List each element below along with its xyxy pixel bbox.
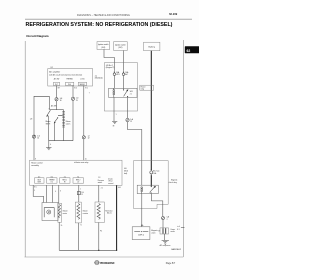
left frame rail xyxy=(24,41,26,257)
svg-text:Comp-: Comp- xyxy=(170,229,175,231)
svg-text:REFRIGERATION SYSTEM: NO REFRI: REFRIGERATION SYSTEM: NO REFRIGERATION (… xyxy=(26,22,173,28)
pressure switch heavy output xyxy=(116,185,118,250)
blower motor label xyxy=(63,211,68,215)
MG clutch relay box xyxy=(137,185,158,193)
fuse A/C 10A xyxy=(122,63,129,90)
svg-text:(No.1): (No.1) xyxy=(107,213,112,215)
svg-text:3: 3 xyxy=(60,191,61,193)
svg-text:IE: IE xyxy=(113,125,115,127)
cluster bus h1 xyxy=(49,109,63,111)
svg-text:Thermistor: Thermistor xyxy=(105,209,113,212)
svg-text:Blower: Blower xyxy=(63,211,68,213)
svg-text:LOCK: LOCK xyxy=(80,78,85,80)
svg-text:5: 5 xyxy=(34,190,35,192)
connector circle 5-B xyxy=(162,217,170,221)
wire IG1 to J/B fuse xyxy=(104,49,114,62)
amp wire pin2 to cluster rail xyxy=(72,100,74,141)
svg-text:ressor: ressor xyxy=(170,231,175,233)
svg-text:7 4: 7 4 xyxy=(77,176,79,178)
svg-text:1-E: 1-E xyxy=(30,119,32,121)
node dot xyxy=(49,108,50,109)
A/C control assembly box xyxy=(30,160,122,185)
coil feed wire inside box xyxy=(141,161,143,186)
svg-text:2-E: 2-E xyxy=(81,192,83,194)
svg-text:62-239: 62-239 xyxy=(169,12,178,16)
svg-text:W-R: W-R xyxy=(130,91,134,93)
svg-text:2 1: 2 1 xyxy=(101,187,103,189)
right frame rail xyxy=(182,40,184,257)
svg-text:16: 16 xyxy=(60,100,62,102)
svg-text:(CMP 4): (CMP 4) xyxy=(138,235,144,237)
heater relay box xyxy=(109,88,137,97)
wire IG2 to J/B xyxy=(123,51,125,63)
svg-text:Circuit Diagram: Circuit Diagram xyxy=(26,34,49,38)
blower motor M xyxy=(47,210,51,214)
svg-text:B 2: B 2 xyxy=(51,67,54,69)
pressure switch section text xyxy=(98,177,114,185)
svg-text:Ignition switch: Ignition switch xyxy=(115,44,126,47)
amp wire pin1 down xyxy=(56,86,58,98)
pin1 wire continues xyxy=(56,101,58,110)
svg-text:HTR: HTR xyxy=(116,74,120,76)
resistor R3 label xyxy=(105,209,113,214)
svg-text:A/C SW: A/C SW xyxy=(54,77,60,80)
relay contact output to clutch xyxy=(152,194,163,217)
compressor ground xyxy=(160,240,171,247)
A/C amplifier box U1 xyxy=(48,69,93,87)
wire pressure section to R3 xyxy=(98,185,100,202)
S1 output wire xyxy=(48,116,50,141)
svg-text:2 1: 2 1 xyxy=(130,93,132,95)
left branch wire to control box xyxy=(34,96,49,160)
svg-text:(Dual): (Dual) xyxy=(108,178,113,180)
svg-text:PRODEMAND: PRODEMAND xyxy=(100,262,115,265)
wire R2 to ground rail xyxy=(77,223,79,250)
svg-text:DIAGNOSIS – HEATER & AIR CONDI: DIAGNOSIS – HEATER & AIR CONDITIONING xyxy=(77,14,130,17)
svg-text:to 4: to 4 xyxy=(177,225,180,228)
svg-text:B 1: B 1 xyxy=(85,88,87,90)
control box pin box 4 xyxy=(73,176,84,183)
wire R3 to ground rail xyxy=(98,223,100,251)
svg-text:A/C: A/C xyxy=(125,73,129,76)
svg-text:4-B: 4-B xyxy=(124,168,126,170)
svg-text:A/C amplifier: A/C amplifier xyxy=(49,70,60,73)
blower switch label xyxy=(66,121,71,125)
label 4-B shielded left of box xyxy=(124,168,129,175)
svg-text:Pressure: Pressure xyxy=(98,180,104,182)
svg-text:(Shiel: (Shiel xyxy=(124,171,129,173)
ground rail bottom xyxy=(59,249,116,251)
wire relay coil to ground xyxy=(113,97,115,121)
cluster bottom rail xyxy=(49,140,73,142)
svg-text:12: 12 xyxy=(88,138,90,140)
wire clutch to ground xyxy=(163,234,165,240)
magnetic clutch relay box outline xyxy=(134,161,169,209)
svg-text:Magnetic: Magnetic xyxy=(151,229,158,232)
MG clutch relay label xyxy=(169,179,178,185)
wire control box to blower unit xyxy=(33,185,43,202)
svg-text:O 2: O 2 xyxy=(50,182,53,184)
amplifier shielded label xyxy=(95,75,103,79)
wire control to resistor R1 xyxy=(58,185,60,203)
svg-text:Heater: Heater xyxy=(141,85,146,88)
connector circle 5-A xyxy=(126,118,134,123)
connector circle 1-G xyxy=(32,135,40,140)
svg-text:7: 7 xyxy=(89,92,90,94)
chapter tab 62 xyxy=(185,46,200,53)
ignition switch box IG1 xyxy=(97,42,110,50)
ground J/B xyxy=(112,121,117,127)
svg-text:Battery: Battery xyxy=(149,45,155,48)
connector square on R2 wire xyxy=(77,189,83,196)
svg-text:RES 1: RES 1 xyxy=(63,179,68,181)
svg-text:6 5: 6 5 xyxy=(38,176,40,178)
amplifier pin group 3 xyxy=(78,78,86,86)
amp wire pin2 down xyxy=(72,86,74,98)
svg-text:Blower: Blower xyxy=(83,211,88,213)
heater relay coil xyxy=(113,88,115,97)
amplifier pin group 1 xyxy=(54,77,60,86)
junction dot on rail xyxy=(98,250,99,251)
wire R1 to ground rail xyxy=(58,222,60,250)
svg-text:1: 1 xyxy=(80,189,81,191)
svg-text:7 1: 7 1 xyxy=(80,225,82,227)
ignition switch box IG2 xyxy=(114,42,128,51)
svg-text:1: 1 xyxy=(116,114,117,116)
svg-text:19: 19 xyxy=(76,100,78,102)
connector circle 1-D xyxy=(71,97,79,102)
battery wire fuse to relay xyxy=(150,176,152,187)
connector circle 1-I xyxy=(82,135,90,139)
tick dash label xyxy=(58,114,63,116)
speed contact ladder wire xyxy=(62,110,65,141)
magnetic clutch MC1 xyxy=(158,228,168,234)
resistor box R3 xyxy=(95,202,104,223)
resistor R2 label xyxy=(83,211,89,215)
junction dot rail right xyxy=(116,250,117,251)
compressor label right xyxy=(170,229,175,233)
A/C fuse on battery line xyxy=(150,169,160,175)
svg-text:B 4: B 4 xyxy=(74,88,76,90)
svg-text:A/C fuse: A/C fuse xyxy=(153,170,159,173)
cluster top wire xyxy=(48,96,50,108)
wire relay output down xyxy=(127,97,129,118)
svg-text:BA3Z0E02: BA3Z0E02 xyxy=(171,248,182,251)
J/B No.2 box xyxy=(104,63,137,111)
svg-text:(IG1): (IG1) xyxy=(101,47,105,49)
amp wire pin3 to control box xyxy=(83,139,85,160)
magnetic clutch label left xyxy=(151,229,158,234)
svg-text:4: 4 xyxy=(55,191,56,193)
svg-text:normal: normal xyxy=(108,183,114,185)
control box pin box 3 xyxy=(60,176,71,183)
footer logo xyxy=(95,260,99,264)
svg-text:F 4: F 4 xyxy=(100,231,102,233)
blower switch S2 xyxy=(46,117,59,125)
svg-text:RES 2: RES 2 xyxy=(76,179,81,181)
svg-text:(Shielded): (Shielded) xyxy=(95,78,103,80)
blower unit box xyxy=(42,203,58,221)
cluster ground xyxy=(46,148,51,150)
blower inner housing xyxy=(44,208,54,218)
svg-text:(Engine R): (Engine R) xyxy=(106,67,115,69)
svg-text:Blower: Blower xyxy=(66,121,71,123)
lock sensor box B1 xyxy=(132,227,150,240)
svg-text:B 1: B 1 xyxy=(177,229,179,231)
amplifier pin group 2 xyxy=(66,78,74,86)
svg-text:BLW: BLW xyxy=(38,179,42,181)
MG relay contact xyxy=(150,186,156,193)
fuse HTR 50A xyxy=(113,63,120,89)
svg-text:to Heater main relay: to Heater main relay xyxy=(74,161,89,164)
svg-text:4: 4 xyxy=(50,144,51,146)
svg-text:14: 14 xyxy=(37,138,39,140)
right rail tick label xyxy=(177,225,184,231)
bottom frame rule xyxy=(25,256,184,258)
wire control to blower pin3 xyxy=(52,185,54,202)
svg-text:Page 5/7: Page 5/7 xyxy=(166,262,176,265)
battery heavy wire xyxy=(150,51,152,170)
svg-text:(IG2): (IG2) xyxy=(118,47,122,49)
wire control to resistor R2 xyxy=(78,185,80,202)
battery box xyxy=(144,42,160,51)
svg-text:B 7: B 7 xyxy=(58,88,60,90)
svg-text:8 2: 8 2 xyxy=(51,176,53,178)
svg-text:1 8: 1 8 xyxy=(98,177,100,179)
connector circle 1-E xyxy=(55,98,63,103)
svg-text:assembly: assembly xyxy=(31,165,39,167)
wire connector to clutch xyxy=(162,220,164,229)
svg-text:clutch relay: clutch relay xyxy=(169,181,177,184)
svg-text:THERMO: THERMO xyxy=(66,78,73,80)
svg-text:relay: relay xyxy=(141,89,145,91)
heater relay label box outside xyxy=(140,85,154,90)
svg-text:(with A/C cut-off and compress: (with A/C cut-off and compressor lock de… xyxy=(49,74,82,77)
svg-text:11: 11 xyxy=(81,194,83,196)
control box pin box 1 xyxy=(35,176,45,183)
svg-text:5-B: 5-B xyxy=(167,217,169,219)
svg-text:Ignition switch: Ignition switch xyxy=(98,43,109,46)
svg-text:M: M xyxy=(48,212,50,214)
svg-text:ded): ded) xyxy=(124,173,128,175)
svg-text:3 1: 3 1 xyxy=(64,176,66,178)
svg-text:A/C SW: A/C SW xyxy=(51,105,57,108)
heater relay contact xyxy=(123,89,128,97)
svg-text:2: 2 xyxy=(167,219,168,221)
svg-text:SW HI: SW HI xyxy=(46,123,51,125)
wire coil to lock sensor amp xyxy=(141,194,143,227)
A/C switch S1 xyxy=(46,105,57,117)
amp wire pin3 down xyxy=(83,86,85,136)
MG relay coil xyxy=(141,187,143,194)
resistor box R1 xyxy=(58,203,62,222)
svg-text:62: 62 xyxy=(187,49,191,53)
svg-text:3 L: 3 L xyxy=(61,225,63,227)
S2 output wire xyxy=(53,123,55,141)
svg-text:Magnetic: Magnetic xyxy=(171,179,178,182)
header rule xyxy=(25,18,192,20)
svg-text:B 5: B 5 xyxy=(34,187,36,189)
resistor box R2 xyxy=(75,202,81,223)
cluster ground stub xyxy=(48,141,50,148)
svg-text:THERM: THERM xyxy=(49,179,55,181)
svg-text:22: 22 xyxy=(130,121,132,123)
wire control to blower pin2 xyxy=(45,185,47,202)
wire connector to MG clutch relay box xyxy=(128,122,142,161)
control box pin box 2 xyxy=(47,176,58,183)
svg-text:4-B: 4-B xyxy=(118,187,120,189)
svg-text:Blower: Blower xyxy=(46,121,51,123)
